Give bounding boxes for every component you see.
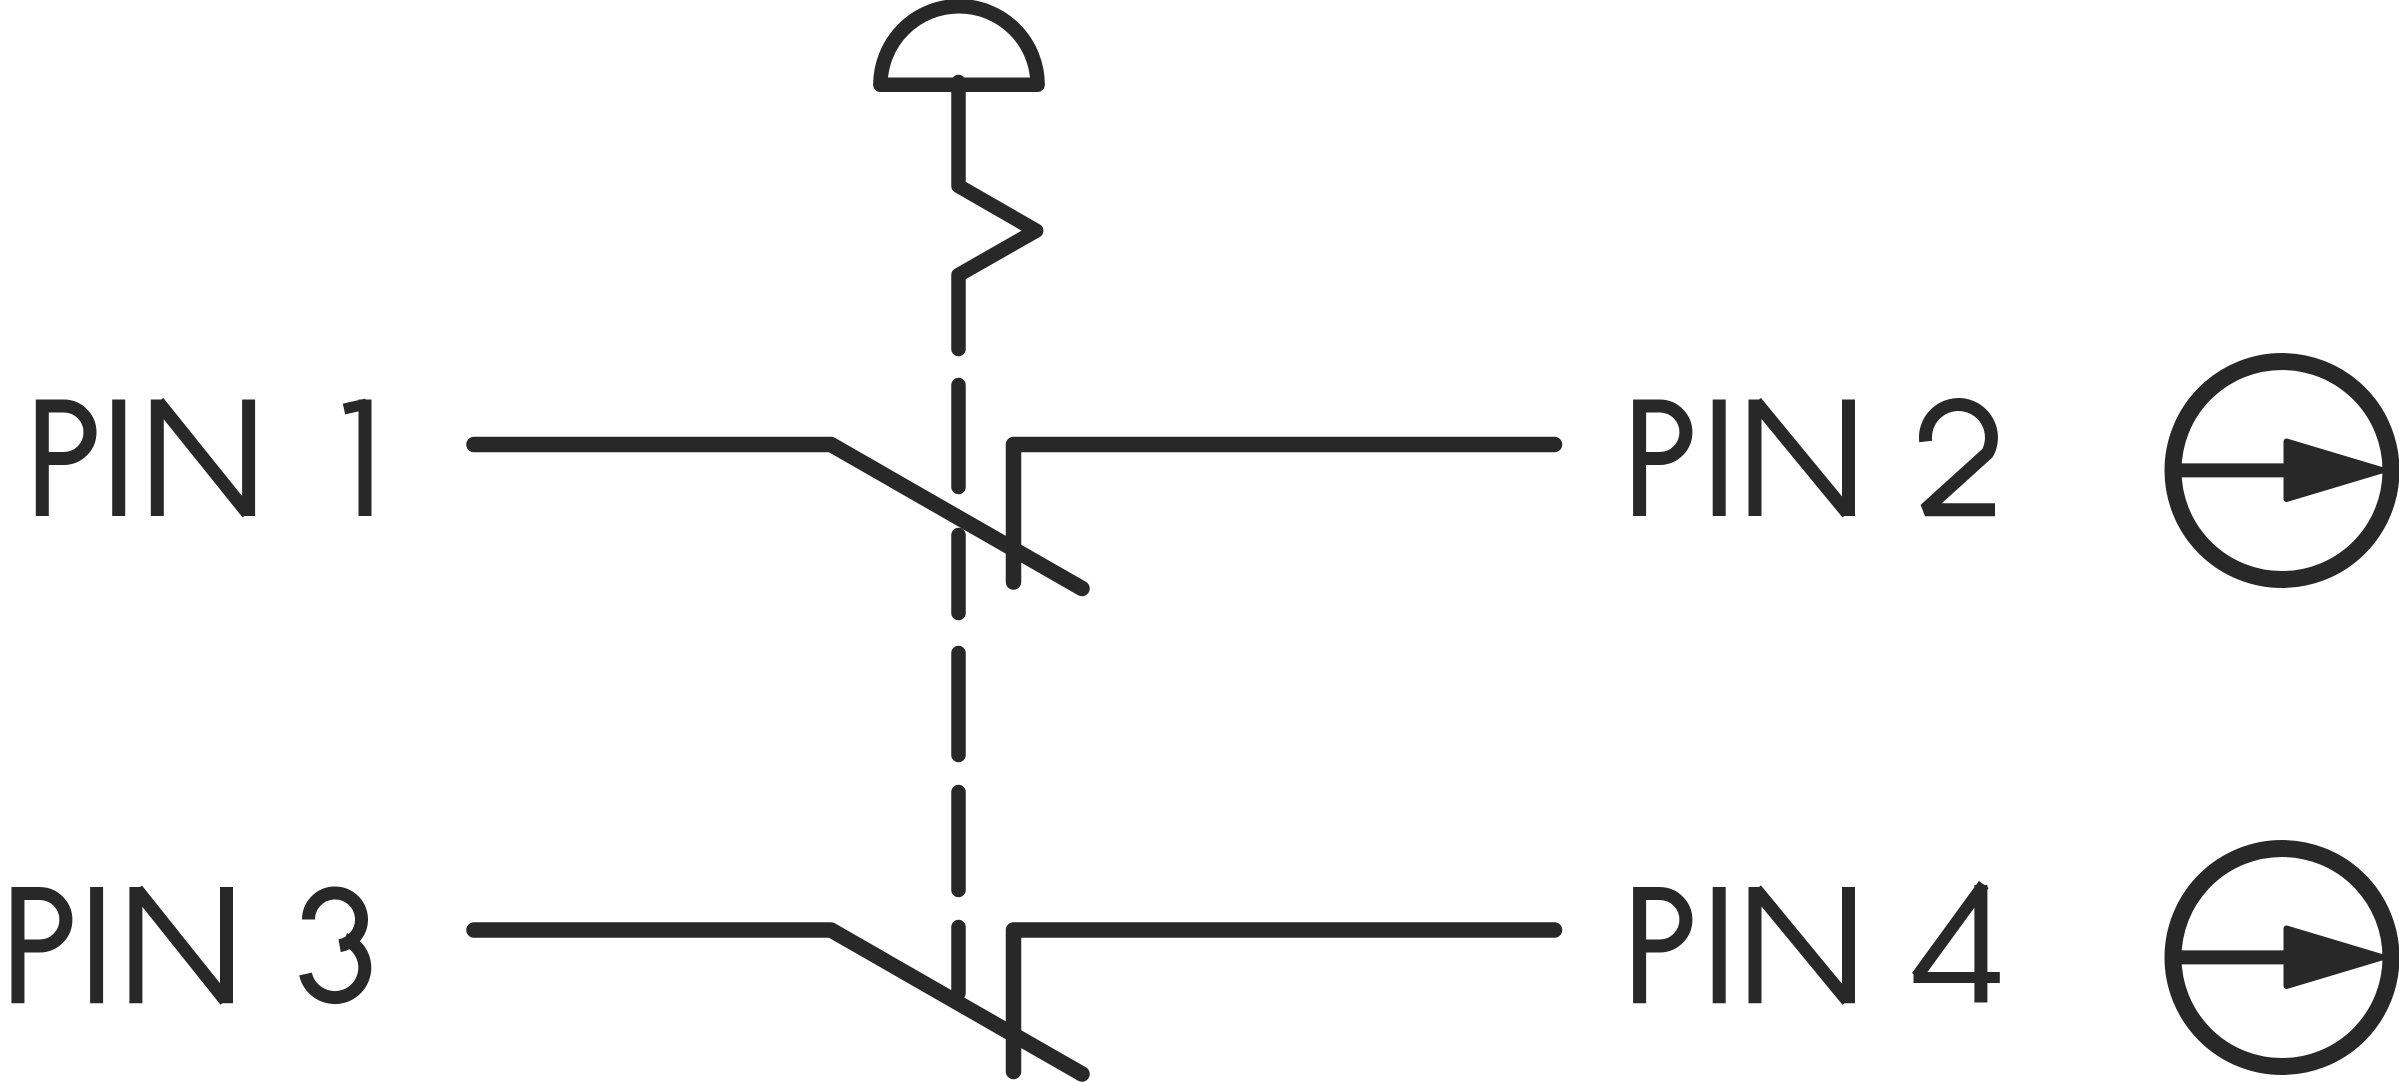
contact 2: fixed contact bar and PIN 4 wire xyxy=(1014,930,1555,1072)
contact 2: PIN 3 wire and moving contact xyxy=(474,930,1082,1074)
pushbutton actuator dome xyxy=(880,6,1037,85)
label PIN 2 xyxy=(1640,400,1995,517)
contact 1: PIN 1 wire and moving contact xyxy=(474,445,1082,589)
contact 1: fixed contact bar and PIN 2 wire xyxy=(1014,445,1555,583)
mechanical linkage dashed line xyxy=(951,385,966,993)
arrow in circle (bottom) xyxy=(2180,929,2383,987)
label PIN 4 xyxy=(1640,885,2000,1004)
label PIN 3 xyxy=(18,887,365,1003)
momentary-function symbol circle (top) xyxy=(2173,362,2391,580)
actuator stem with spring zigzag xyxy=(959,82,1037,349)
arrow in circle (top) xyxy=(2180,442,2383,500)
momentary-function symbol circle (bottom) xyxy=(2173,849,2391,1067)
label PIN 1 xyxy=(42,400,366,517)
